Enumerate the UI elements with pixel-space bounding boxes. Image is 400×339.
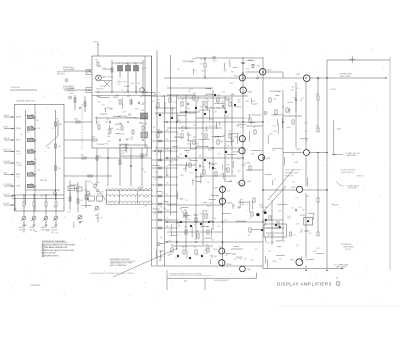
resistor R545	[183, 250, 185, 254]
value label R461	[107, 107, 111, 109]
wire bracket	[85, 88, 87, 93]
label SCALE	[51, 226, 56, 229]
resistor R547	[207, 248, 209, 252]
value label 6.8K	[304, 123, 308, 125]
value label R492	[210, 256, 214, 258]
value label 4.7K	[217, 226, 221, 228]
svg-text:R481: R481	[143, 68, 147, 70]
wire external input stub	[4, 195, 15, 197]
resistor R402	[97, 62, 99, 66]
thermistor RT583 box	[304, 218, 313, 226]
reference bubble 3b	[69, 96, 72, 99]
value ladder	[166, 210, 169, 212]
label DLY PICKOFF	[3, 184, 12, 186]
wire tube column rail	[242, 62, 244, 180]
wire interconnect	[64, 175, 112, 177]
label note right mid3	[341, 171, 355, 174]
wire stub	[113, 116, 121, 118]
svg-text:Q584: Q584	[296, 74, 300, 76]
svg-text:.047: .047	[144, 171, 147, 173]
value label 330	[128, 113, 131, 115]
value label .005	[176, 235, 179, 237]
value label +225	[155, 113, 159, 115]
wire diag lead	[104, 81, 110, 87]
tube V484A	[220, 186, 226, 192]
svg-text:R492: R492	[169, 254, 173, 256]
svg-text:820: 820	[231, 72, 234, 74]
value label C463	[237, 100, 241, 102]
wire stub	[153, 208, 160, 210]
label grid stopper c	[231, 93, 236, 96]
wire	[165, 157, 244, 159]
wire stage interconnect	[283, 115, 302, 117]
label +225V	[247, 60, 253, 62]
svg-text:+100: +100	[266, 242, 270, 244]
svg-text:390: 390	[238, 102, 241, 104]
value label R453	[210, 94, 214, 96]
svg-text:+100: +100	[213, 112, 217, 114]
value label .005	[152, 127, 155, 129]
resistor R399	[84, 102, 86, 106]
svg-text:.047: .047	[305, 140, 308, 142]
svg-text:R481: R481	[144, 124, 148, 126]
wire ladder row	[152, 167, 179, 169]
svg-text:R472: R472	[135, 109, 139, 111]
value label 390	[23, 232, 26, 234]
reference item bubble 4	[42, 252, 44, 254]
wire	[263, 189, 296, 191]
svg-text:C463: C463	[128, 115, 132, 117]
svg-text:C463: C463	[187, 143, 191, 145]
svg-text:910: 910	[209, 126, 212, 128]
label ASTIG	[41, 226, 47, 229]
junction	[79, 107, 80, 108]
value label 2.2K	[200, 64, 204, 66]
value label R492	[237, 159, 241, 161]
wire stub	[249, 202, 251, 213]
wire stub	[222, 165, 224, 170]
svg-text:DEFL PLATE: DEFL PLATE	[340, 75, 351, 78]
resistor R534	[185, 213, 187, 217]
svg-text:R481: R481	[209, 147, 213, 149]
label R402	[95, 60, 98, 62]
wire	[305, 266, 307, 269]
svg-text:Q464: Q464	[265, 158, 269, 160]
svg-text:+100: +100	[141, 110, 145, 112]
wire stage bus	[167, 204, 223, 206]
svg-text:450: 450	[184, 280, 187, 282]
svg-text:820: 820	[273, 125, 276, 127]
resistor R520	[193, 140, 195, 144]
value ladder	[166, 183, 169, 185]
value label 2.7K	[67, 212, 71, 214]
svg-text:820: 820	[214, 218, 217, 220]
wire	[45, 206, 47, 216]
junction	[204, 77, 205, 78]
svg-text:EMITTER: EMITTER	[260, 207, 268, 209]
svg-text:EXT HORIZ: EXT HORIZ	[3, 161, 11, 163]
wire rail to output bus	[262, 242, 264, 269]
wire stub	[186, 250, 188, 259]
wire stage bus	[167, 87, 213, 89]
resistor ladder R-141	[158, 140, 161, 142]
value label +225	[226, 99, 230, 101]
value label C463	[207, 162, 211, 164]
svg-text:AND TOLERANCES: AND TOLERANCES	[110, 264, 127, 267]
value label 2.2K	[186, 152, 190, 154]
arrow pointer left	[332, 154, 334, 156]
wire heading underline	[42, 242, 69, 244]
label V484B	[227, 203, 233, 205]
value label .001	[305, 131, 308, 133]
value label .047	[305, 140, 308, 142]
reference bubble digit 1	[54, 193, 55, 195]
wire stage interconnect	[263, 219, 283, 221]
svg-text:Q593: Q593	[291, 187, 295, 189]
svg-text:Q474: Q474	[247, 181, 251, 183]
wire note underline	[169, 275, 212, 277]
value label 6.8K	[287, 102, 291, 104]
label -GATE A	[3, 125, 9, 128]
value label 56K	[96, 218, 100, 220]
resistor R315	[55, 166, 57, 170]
wire rail	[156, 50, 158, 265]
value ladder	[166, 175, 169, 177]
wire pot return bus	[12, 198, 64, 200]
svg-text:47: 47	[134, 63, 136, 65]
value label .047	[102, 105, 105, 107]
transistor junction Q540	[180, 221, 182, 223]
value label	[130, 137, 133, 139]
resistor ladder R-204	[158, 203, 161, 205]
value label R461	[105, 144, 109, 146]
junction switch pole	[34, 151, 35, 152]
label R315	[58, 168, 62, 170]
wire stub	[264, 256, 266, 263]
svg-text:SEE PARTS LIST FOR: SEE PARTS LIST FOR	[110, 258, 130, 261]
wire stub	[277, 246, 281, 248]
resistor R425	[121, 126, 123, 130]
wire stage interconnect	[167, 94, 196, 96]
wire stub	[113, 96, 118, 98]
value label 56K	[187, 219, 191, 221]
wire +225V rail	[326, 60, 328, 269]
reference list heading	[42, 240, 66, 243]
capacitor C583	[295, 99, 296, 102]
svg-text:220: 220	[293, 98, 296, 100]
resistor R519	[181, 134, 183, 138]
wire external input stub	[4, 174, 15, 176]
svg-text:1 DISPLAY SENSITIVITY SWITCHI: 1 DISPLAY SENSITIVITY SWITCHING	[42, 243, 75, 246]
resistor R398	[74, 98, 76, 102]
wire rail	[185, 210, 187, 250]
wire stub	[283, 157, 285, 165]
label +225 right	[331, 89, 337, 91]
value label .001	[98, 201, 101, 203]
svg-text:390: 390	[126, 90, 129, 92]
transistor Q454	[260, 69, 266, 75]
label PLUG-IN lower	[63, 87, 75, 90]
junction	[176, 121, 177, 122]
wire	[33, 206, 35, 216]
label box lower a	[17, 154, 22, 156]
svg-text:V464B: V464B	[247, 92, 253, 94]
label annot squiggle 3	[345, 249, 351, 251]
svg-text:Q594: Q594	[290, 260, 294, 262]
wire stub	[239, 124, 245, 126]
transistor junction Q541	[190, 225, 192, 227]
arrow input	[12, 195, 14, 197]
junction	[326, 270, 327, 271]
transistor junction Q515	[234, 104, 236, 106]
junction	[242, 77, 244, 79]
wire	[55, 220, 57, 224]
value label C447	[190, 62, 194, 64]
svg-text:57: 57	[166, 139, 168, 141]
wire	[152, 95, 249, 97]
wire right border rail	[389, 57, 391, 270]
junction	[242, 157, 243, 158]
transistor junction Q543	[208, 221, 210, 223]
wire delay line tap	[119, 190, 121, 204]
value label 2.7K	[241, 202, 245, 204]
value label D472	[252, 101, 256, 103]
value R431	[99, 156, 103, 158]
value label R481	[143, 68, 147, 70]
value label R461	[220, 141, 224, 143]
svg-text:V484B: V484B	[227, 203, 233, 205]
wire stub	[226, 141, 234, 143]
value label 4.7K	[142, 134, 146, 136]
svg-text:R453: R453	[126, 138, 130, 140]
value label .047	[177, 156, 180, 158]
value label R472	[186, 108, 190, 110]
value label 5.6K	[271, 235, 275, 237]
wire stub	[215, 136, 225, 138]
value label	[116, 95, 119, 97]
svg-text:C447: C447	[117, 84, 121, 86]
wire scan artifact	[278, 305, 400, 307]
wire	[23, 206, 25, 216]
wire stub	[103, 68, 113, 70]
title DISPLAY AMPLIFIERS	[277, 282, 332, 287]
switch contact SW30-3	[27, 138, 33, 141]
wire	[204, 57, 206, 62]
svg-text:-150: -150	[179, 154, 182, 156]
wire interconnect	[64, 121, 92, 123]
label Q585	[296, 149, 300, 151]
value label +225	[313, 251, 317, 253]
value label 15K	[102, 68, 106, 70]
svg-text:D472: D472	[214, 125, 218, 127]
value label 56K	[305, 260, 309, 262]
value label 47K	[196, 144, 200, 146]
wire stub	[97, 213, 99, 222]
wire	[33, 195, 35, 202]
value label .001	[152, 101, 155, 103]
wire	[222, 242, 224, 245]
svg-text:R472: R472	[131, 83, 135, 85]
svg-text:Q585: Q585	[296, 149, 300, 151]
svg-text:SEMICONDUCTOR TYPES: SEMICONDUCTOR TYPES	[110, 262, 133, 264]
wire stub	[160, 251, 162, 260]
value label 39K	[250, 123, 254, 125]
svg-text:220: 220	[174, 102, 177, 104]
value label 910	[165, 221, 168, 223]
svg-text:120: 120	[253, 127, 256, 129]
wire ladder row	[152, 227, 179, 229]
svg-text:45: 45	[336, 277, 338, 279]
wire	[127, 72, 129, 92]
potentiometer INTEN	[31, 216, 36, 221]
value label 10K	[127, 64, 131, 66]
wire stub	[277, 204, 287, 206]
value 180	[170, 245, 173, 247]
arrow input	[12, 185, 14, 187]
resistor R535	[195, 218, 197, 222]
transistor junction Q513	[214, 94, 216, 96]
value label 330	[211, 239, 214, 241]
capacitor C516	[187, 103, 188, 106]
junction	[222, 221, 223, 222]
value label 47K	[282, 106, 286, 108]
value label -150	[273, 179, 276, 181]
wire external input stub	[4, 116, 15, 118]
resistor R404	[111, 68, 113, 72]
junction	[195, 147, 196, 148]
junction	[242, 147, 243, 148]
svg-text:R453: R453	[224, 220, 228, 222]
wire stub	[277, 124, 279, 134]
wire section rail	[164, 95, 166, 266]
value label 390	[218, 153, 221, 155]
wire delay line rail top	[106, 189, 152, 191]
test point circle	[257, 77, 259, 79]
resistor R544	[171, 248, 173, 252]
wire bottom stub	[166, 270, 168, 290]
tube V414 envelope	[96, 75, 102, 81]
transistor junction Q512	[204, 113, 206, 115]
svg-text:+150V: +150V	[336, 128, 342, 130]
junction	[45, 194, 46, 195]
wire external input stub	[4, 139, 15, 141]
label grid stopper b	[230, 83, 234, 85]
value label 12K	[177, 69, 181, 71]
reference item 2	[42, 246, 68, 249]
svg-text:R453: R453	[213, 61, 217, 63]
value C343	[97, 194, 100, 196]
value label R481	[209, 147, 213, 149]
value ladder	[166, 130, 169, 132]
page number 450	[184, 280, 187, 282]
svg-text:R492: R492	[210, 256, 214, 258]
resistor R341	[69, 197, 71, 201]
svg-text:L476: L476	[209, 119, 213, 121]
svg-text:495: 495	[95, 215, 98, 217]
svg-text:R41: R41	[116, 95, 119, 97]
junction	[282, 121, 283, 122]
value label 33K	[159, 260, 163, 262]
resistor R489	[94, 184, 96, 188]
svg-text:220: 220	[292, 181, 295, 183]
value label 330	[221, 102, 224, 104]
value ladder	[166, 158, 169, 160]
wire stub	[219, 122, 221, 126]
resistor R504	[193, 96, 195, 100]
wire	[242, 57, 244, 62]
note underline heading	[169, 273, 202, 276]
wire stub	[229, 133, 239, 135]
wire stub	[231, 248, 243, 250]
wire stub	[183, 212, 185, 218]
svg-text:470: 470	[70, 93, 73, 95]
wire stub	[222, 173, 224, 179]
svg-text:SWP: SWP	[141, 115, 145, 117]
value label 2.2K	[122, 63, 126, 65]
value label 18K	[181, 211, 185, 213]
wire stage interconnect	[246, 169, 263, 171]
arrow input	[12, 174, 14, 176]
wire stub	[124, 144, 126, 150]
svg-text:390: 390	[23, 232, 26, 234]
label annot squiggle 1	[341, 244, 352, 246]
value label 390	[180, 198, 183, 200]
resistor R532	[227, 168, 229, 172]
wire stub	[214, 102, 224, 104]
wire plug-in lead	[86, 87, 92, 89]
wire	[69, 180, 71, 210]
transistor junction Q527	[195, 169, 197, 171]
wire stub	[126, 144, 128, 153]
junction	[127, 91, 128, 92]
svg-text:C491: C491	[299, 231, 303, 233]
value label .005	[239, 199, 242, 201]
value label 330	[215, 137, 218, 139]
wire stub	[73, 222, 75, 228]
svg-text:R492: R492	[53, 207, 57, 209]
capacitor C593	[295, 209, 296, 212]
label left margin a	[141, 110, 145, 112]
wire	[266, 227, 284, 229]
reference bubble digit 3b	[69, 97, 70, 99]
value label 150K	[122, 111, 127, 113]
svg-text:DISPLAY AMPLIFIERS: DISPLAY AMPLIFIERS	[277, 282, 332, 287]
wire cathode rail	[222, 185, 224, 266]
wire stub	[96, 117, 98, 125]
wire corner mark	[251, 273, 257, 279]
wire stub	[281, 118, 283, 129]
value label .047	[144, 171, 147, 173]
wire stub	[206, 106, 208, 110]
resistor R429	[142, 126, 144, 130]
resistor R502	[169, 98, 171, 102]
tube V424 envelope	[140, 88, 145, 93]
wire stub	[226, 181, 232, 183]
label Q594	[290, 260, 294, 262]
thermistor bead	[307, 220, 309, 222]
value label 10K	[175, 258, 179, 260]
wire +350V feed	[327, 59, 390, 61]
wire stub	[276, 254, 285, 256]
svg-text:292: 292	[166, 130, 169, 132]
value label 150K	[188, 135, 193, 137]
label left margin b	[141, 115, 145, 117]
value label 47K	[251, 259, 255, 261]
wire stub	[160, 152, 162, 162]
value label D472	[189, 89, 193, 91]
wire stub	[212, 195, 219, 197]
wire stub	[206, 126, 208, 130]
